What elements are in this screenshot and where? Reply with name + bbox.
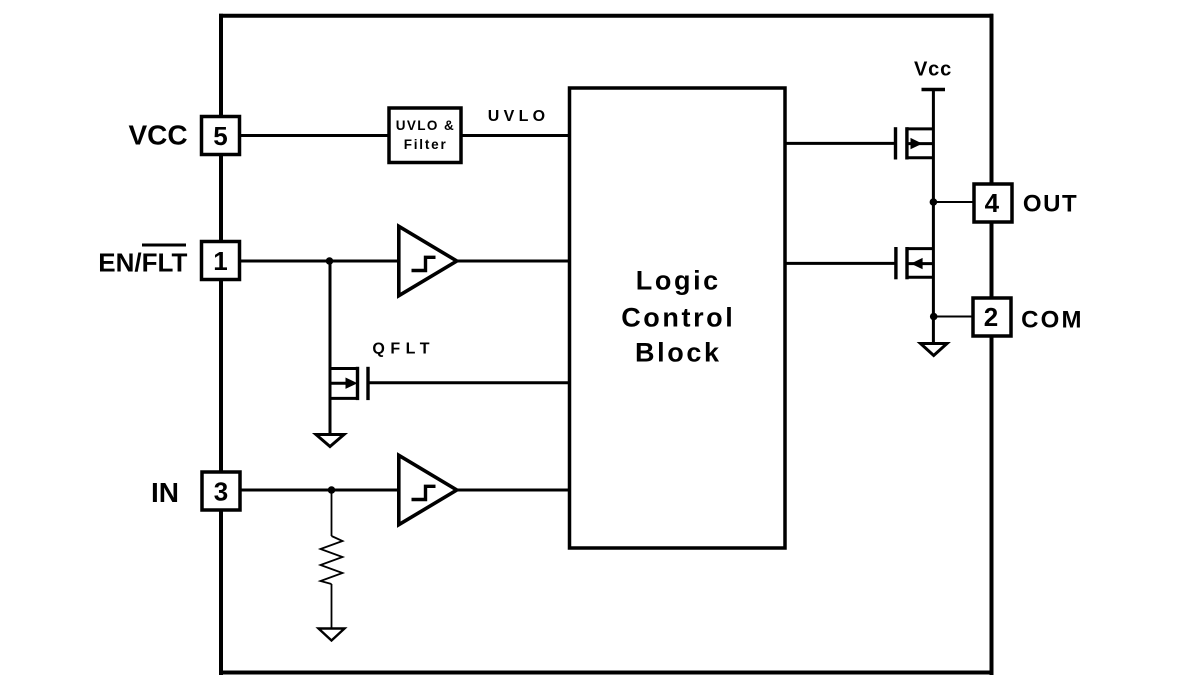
pin 2 box: [973, 298, 1011, 336]
transistor QFLT arrowhead: [346, 378, 358, 389]
svg-text:1: 1: [213, 246, 227, 276]
pin 3 box: [202, 472, 240, 510]
transistor Q1 channel plate: [905, 127, 908, 159]
wire pin3 to schmitt buffer U2: [239, 489, 400, 492]
node junction dot OUT: [930, 198, 938, 206]
transistor Q2 arrowhead: [911, 258, 923, 269]
ground symbol below QFLT: [316, 435, 344, 447]
schmitt trigger buffer U2: [399, 455, 457, 524]
overline over FLT: [142, 244, 186, 247]
IC boundary left border: [219, 14, 223, 675]
svg-text:Logic: Logic: [636, 266, 721, 296]
svg-text:2: 2: [984, 302, 998, 332]
svg-text:4: 4: [985, 188, 1000, 218]
node junction dot COM: [930, 313, 938, 321]
Logic Control Block: [570, 88, 786, 548]
wire OUT dot to pin 4: [933, 201, 975, 203]
IC boundary top border: [219, 14, 993, 18]
output rail wire (Vcc bar down through MOSFETs to ground): [932, 90, 935, 344]
resistor R1 zigzag: [321, 536, 343, 584]
transistor Q1 body arrow line: [907, 142, 934, 145]
wire U1 output to logic block: [456, 260, 571, 263]
transistor Q1 arrowhead: [911, 138, 923, 149]
pin 5 box: [202, 117, 240, 155]
schmitt trigger buffer U1: [399, 226, 457, 295]
hysteresis symbol U1: [412, 257, 436, 270]
ground arrow below resistor R1: [319, 629, 345, 641]
Vcc supply bar: [922, 88, 946, 91]
transistor Q1 source stub: [907, 156, 934, 159]
wire QFLT gate to logic block: [368, 381, 570, 384]
wire UVLO block to logic block (net UVLO): [458, 134, 570, 137]
transistor QFLT drain/source vertical wire: [329, 261, 332, 434]
svg-text:IN: IN: [151, 477, 179, 508]
wire pin1 to schmitt buffer U1: [239, 260, 400, 263]
svg-text:UVLO &: UVLO &: [396, 118, 455, 133]
svg-text:OUT: OUT: [1023, 191, 1078, 218]
svg-text:Filter: Filter: [404, 137, 448, 152]
svg-text:Block: Block: [635, 338, 722, 368]
svg-text:3: 3: [214, 477, 228, 507]
transistor QFLT channel plate: [356, 367, 359, 400]
transistor Q2 gate bar: [894, 247, 897, 279]
transistor QFLT source stub: [329, 397, 358, 400]
svg-text:Control: Control: [621, 303, 735, 333]
svg-text:UVLO: UVLO: [488, 108, 550, 125]
IC boundary bottom border: [219, 671, 993, 675]
transistor Q2 (low-side) drain stub: [907, 247, 934, 250]
svg-text:5: 5: [213, 121, 227, 151]
svg-text:EN/FLT: EN/FLT: [98, 248, 187, 278]
wire COM dot to pin 2: [934, 316, 974, 318]
svg-text:VCC: VCC: [128, 120, 187, 151]
transistor QFLT gate bar: [366, 367, 369, 400]
wire logic block to Q1 gate: [785, 142, 896, 145]
hysteresis symbol U2: [412, 486, 436, 499]
svg-text:QFLT: QFLT: [372, 341, 435, 358]
wire logic block to Q2 gate: [785, 262, 896, 265]
wire pin5 to UVLO block: [239, 134, 392, 137]
transistor Q2 body arrow line: [907, 262, 934, 265]
pin 1 box: [202, 242, 240, 280]
svg-text:COM: COM: [1021, 307, 1084, 334]
resistor R1 top lead: [331, 490, 333, 536]
transistor Q1 gate bar: [894, 127, 897, 159]
transistor QFLT drain stub: [329, 367, 358, 370]
node junction dot on EN/FLT net: [326, 257, 334, 265]
svg-text:Vcc: Vcc: [914, 59, 952, 81]
transistor Q2 source stub: [907, 276, 934, 279]
ground symbol below COM node: [921, 344, 948, 356]
wire U2 output to logic block: [456, 489, 571, 492]
node junction dot on IN net: [328, 486, 336, 494]
IC boundary right border: [990, 14, 994, 675]
pin 4 box: [974, 184, 1012, 222]
transistor QFLT body arrow line: [330, 382, 348, 385]
resistor R1 bottom lead: [331, 584, 333, 628]
transistor Q1 (high-side) drain stub: [907, 127, 934, 130]
UVLO & Filter block: [389, 108, 461, 163]
transistor Q2 channel plate: [905, 247, 908, 279]
